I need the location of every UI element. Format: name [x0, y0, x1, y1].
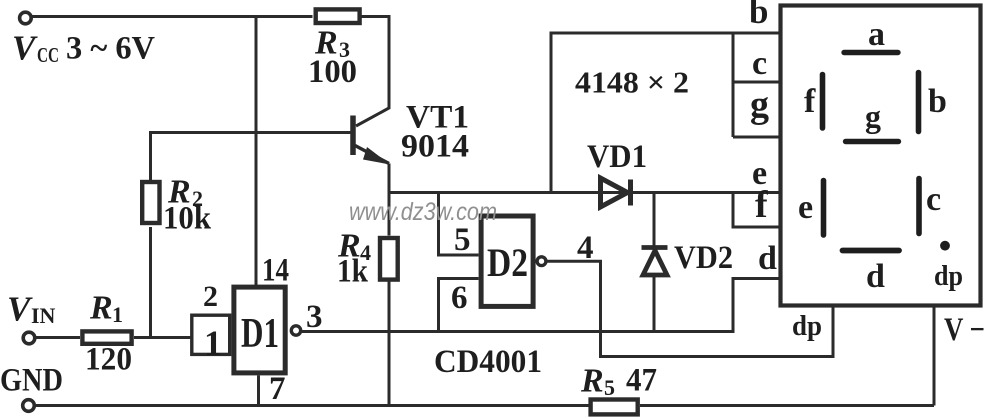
svg-text:a: a — [868, 16, 885, 53]
svg-text:g: g — [750, 84, 769, 126]
wire branch to display b pin — [551, 33, 780, 193]
wire ladder c g pins — [732, 33, 735, 137]
segment dp dot — [940, 241, 950, 251]
wire D2 pin6 — [439, 279, 479, 333]
svg-text:VD1: VD1 — [587, 139, 647, 175]
segment e bar — [821, 181, 827, 236]
label R1 120 — [85, 290, 132, 378]
gate D1 — [234, 287, 285, 373]
svg-text:D1: D1 — [241, 311, 279, 357]
segment a — [844, 50, 898, 55]
wire f pin loop — [733, 193, 780, 228]
svg-text:5: 5 — [604, 375, 615, 400]
svg-text:3 ~ 6V: 3 ~ 6V — [66, 31, 155, 67]
label R2 10k — [163, 174, 212, 237]
segment b bar — [916, 73, 922, 132]
diode VD2 — [642, 248, 668, 276]
resistor R1 — [82, 331, 131, 343]
wire D1 pin7 — [257, 376, 260, 406]
svg-text:10k: 10k — [163, 201, 212, 237]
svg-text:www.dz3w.com: www.dz3w.com — [349, 198, 497, 226]
wire VCC rail — [32, 15, 313, 18]
wire R1 to D1 inputs — [134, 336, 191, 339]
svg-text:100: 100 — [308, 54, 357, 90]
svg-text:3: 3 — [306, 299, 323, 335]
wire ground rail right — [640, 404, 934, 407]
display LED box — [781, 6, 981, 306]
svg-text:6: 6 — [451, 280, 468, 316]
wire R2 to input node — [149, 227, 152, 339]
wire c g divider — [733, 81, 780, 84]
svg-text:5: 5 — [454, 222, 471, 258]
svg-text:e: e — [798, 189, 813, 226]
svg-text:f: f — [755, 184, 769, 226]
wire V- to display — [933, 306, 936, 406]
segment d — [843, 248, 900, 254]
transistor VT1 — [353, 116, 390, 165]
svg-text:1: 1 — [204, 323, 222, 363]
svg-text:c: c — [926, 181, 941, 218]
svg-text:7: 7 — [269, 371, 286, 407]
terminal VCC — [20, 12, 32, 24]
wire D1 input box — [192, 315, 230, 354]
svg-text:dp: dp — [792, 311, 822, 342]
resistor R5 — [591, 400, 638, 415]
svg-text:14: 14 — [262, 253, 289, 289]
wire D2 pin5 — [439, 193, 479, 256]
svg-text:47: 47 — [626, 363, 657, 399]
svg-text:b: b — [749, 0, 768, 31]
svg-text:4: 4 — [577, 230, 594, 266]
wire VCC branch to D1 pin14 — [255, 17, 258, 286]
wire R3 to collector — [356, 17, 389, 127]
wire emitter net to display e pin — [389, 191, 780, 194]
wire D2 pin4 to dp pin — [547, 261, 833, 356]
terminal GND — [23, 400, 35, 412]
segment g — [846, 139, 899, 144]
wire ground rail left — [35, 404, 589, 407]
svg-text:d: d — [758, 240, 777, 277]
svg-text:IN: IN — [31, 303, 56, 328]
svg-text:V −: V − — [944, 312, 985, 348]
svg-text:g: g — [865, 98, 881, 134]
label R3 100 — [308, 25, 357, 91]
resistor R4 — [380, 238, 398, 280]
svg-text:d: d — [866, 258, 885, 295]
svg-text:R: R — [580, 363, 604, 400]
resistor R3 — [316, 9, 360, 23]
gate D2 — [481, 216, 533, 306]
diode VD1 — [601, 178, 631, 207]
wire VIN to R1 — [35, 336, 80, 339]
svg-text:4148 × 2: 4148 × 2 — [575, 65, 689, 100]
segment f bar — [820, 75, 826, 129]
svg-text:V: V — [7, 290, 33, 329]
svg-text:9014: 9014 — [401, 129, 469, 165]
bubble D1 output — [291, 326, 300, 335]
label R5 47 — [580, 363, 657, 401]
wire VD2 branch — [653, 193, 656, 247]
svg-text:R: R — [89, 290, 113, 327]
svg-text:VD2: VD2 — [674, 240, 733, 276]
wire base — [151, 133, 354, 181]
resistor R2 — [142, 182, 159, 223]
label VIN — [7, 290, 56, 329]
wire VD2 to d net — [653, 276, 656, 332]
display segments — [823, 53, 950, 251]
svg-text:V: V — [12, 29, 38, 68]
svg-text:120: 120 — [85, 342, 132, 378]
wire R4 to ground rail — [388, 281, 391, 406]
label VT1 9014 — [401, 100, 469, 165]
svg-text:2: 2 — [203, 280, 218, 313]
svg-text:b: b — [928, 83, 947, 120]
bubble D2 output — [537, 257, 546, 266]
label R4 1k — [337, 228, 371, 290]
svg-text:D2: D2 — [487, 240, 528, 285]
svg-text:CC: CC — [37, 43, 59, 67]
svg-text:1: 1 — [112, 302, 123, 327]
label VCC — [12, 29, 155, 68]
wire emitter vertical — [388, 164, 391, 236]
segment c bar — [916, 179, 922, 234]
svg-text:1k: 1k — [337, 254, 369, 290]
svg-text:f: f — [804, 83, 816, 120]
terminal VIN — [23, 332, 35, 344]
svg-text:GND: GND — [0, 363, 63, 399]
wire D1 pin3 net — [302, 279, 780, 332]
svg-text:dp: dp — [934, 261, 963, 292]
svg-text:CD4001: CD4001 — [434, 344, 542, 380]
svg-text:c: c — [752, 45, 767, 82]
wire g bottom — [733, 136, 780, 139]
